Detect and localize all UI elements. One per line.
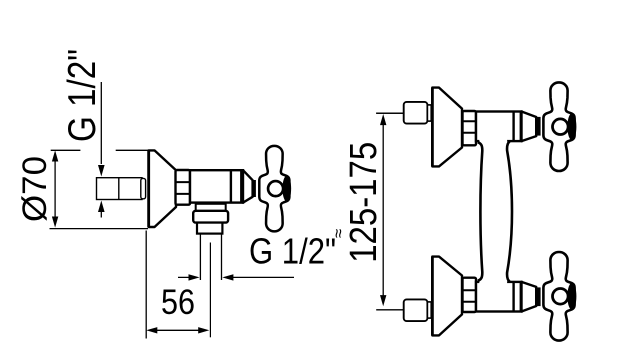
- escutcheon cone: [432, 88, 462, 167]
- arrow down (125-175 bottom): [380, 295, 386, 306]
- arrow left (56): [146, 327, 157, 333]
- dimension 56: extension line left: [145, 231, 147, 339]
- hex nut (left fig): [176, 170, 191, 205]
- wall stub line: [376, 112, 404, 114]
- leader for bottom G 1/2" with arrows at outlet pipe: [178, 276, 195, 278]
- extension tick bottom: [50, 228, 149, 230]
- arrow right at pipe left wall: [189, 274, 200, 280]
- leader line from G 1/2" down to pipe: [100, 82, 102, 164]
- hex nut facet lines: [463, 121, 477, 133]
- handle (front view): [543, 82, 576, 171]
- collar rings: [231, 170, 241, 202]
- dimension 125-175: top stub line: [376, 112, 405, 114]
- column left edge: [478, 142, 483, 281]
- outlet nut: [193, 211, 228, 223]
- wall union block: [404, 102, 428, 124]
- connecting column white body: [479, 139, 511, 284]
- hex nut facet lines: [176, 182, 191, 194]
- union flange: [427, 105, 431, 121]
- dimension 56 line with arrows: [151, 329, 205, 331]
- arrow up (O70 top): [52, 150, 58, 161]
- svg-text:G 1/2": G 1/2": [249, 231, 336, 272]
- column right edge: [507, 141, 512, 281]
- arrow down (O70 bottom): [52, 217, 58, 228]
- dimension line Ø70 (vertical, arrows both ends): [54, 155, 56, 223]
- arrow down to pipe top: [98, 165, 105, 177]
- nose end bar: [253, 180, 256, 197]
- taper to handle: [243, 170, 253, 202]
- outlet collar: [197, 223, 222, 234]
- taper: [522, 112, 537, 142]
- escutcheon cone (left fig): [149, 150, 176, 227]
- arrow right (56): [198, 327, 209, 333]
- outlet pipe (thin open-ended): [200, 234, 221, 280]
- svg-text:G 1/2": G 1/2": [61, 49, 104, 142]
- collar rings: [514, 112, 521, 142]
- valve body (horizontal cylinder): [190, 170, 243, 202]
- escutcheon face line: [147, 150, 150, 227]
- pipe thread divider: [118, 178, 120, 200]
- escutcheon face line: [431, 88, 434, 167]
- dimension line vertical with arrows: [382, 124, 384, 296]
- svg-text:56: 56: [161, 283, 195, 322]
- pipe end cap: [141, 178, 146, 198]
- wall pipe (inlet, thin outline): [97, 178, 143, 200]
- svg-text:Ø70: Ø70: [16, 156, 54, 222]
- leader shaft below pipe: [100, 206, 102, 218]
- arrow left at pipe right wall: [222, 274, 233, 280]
- nose end bar: [537, 117, 541, 136]
- leader segment right: [228, 276, 294, 278]
- handle (left fig, cross handle side view): [259, 146, 291, 231]
- arrow up to pipe bottom: [98, 201, 105, 213]
- svg-text:125-175: 125-175: [343, 142, 385, 263]
- center line: [209, 243, 211, 338]
- extension tick top (two segments): [51, 149, 149, 151]
- hex nut: [463, 111, 477, 145]
- arrow up (125-175 top): [380, 114, 386, 125]
- valve body: [476, 112, 522, 142]
- svg-text:≈: ≈: [329, 229, 348, 238]
- outlet neck: [196, 204, 226, 211]
